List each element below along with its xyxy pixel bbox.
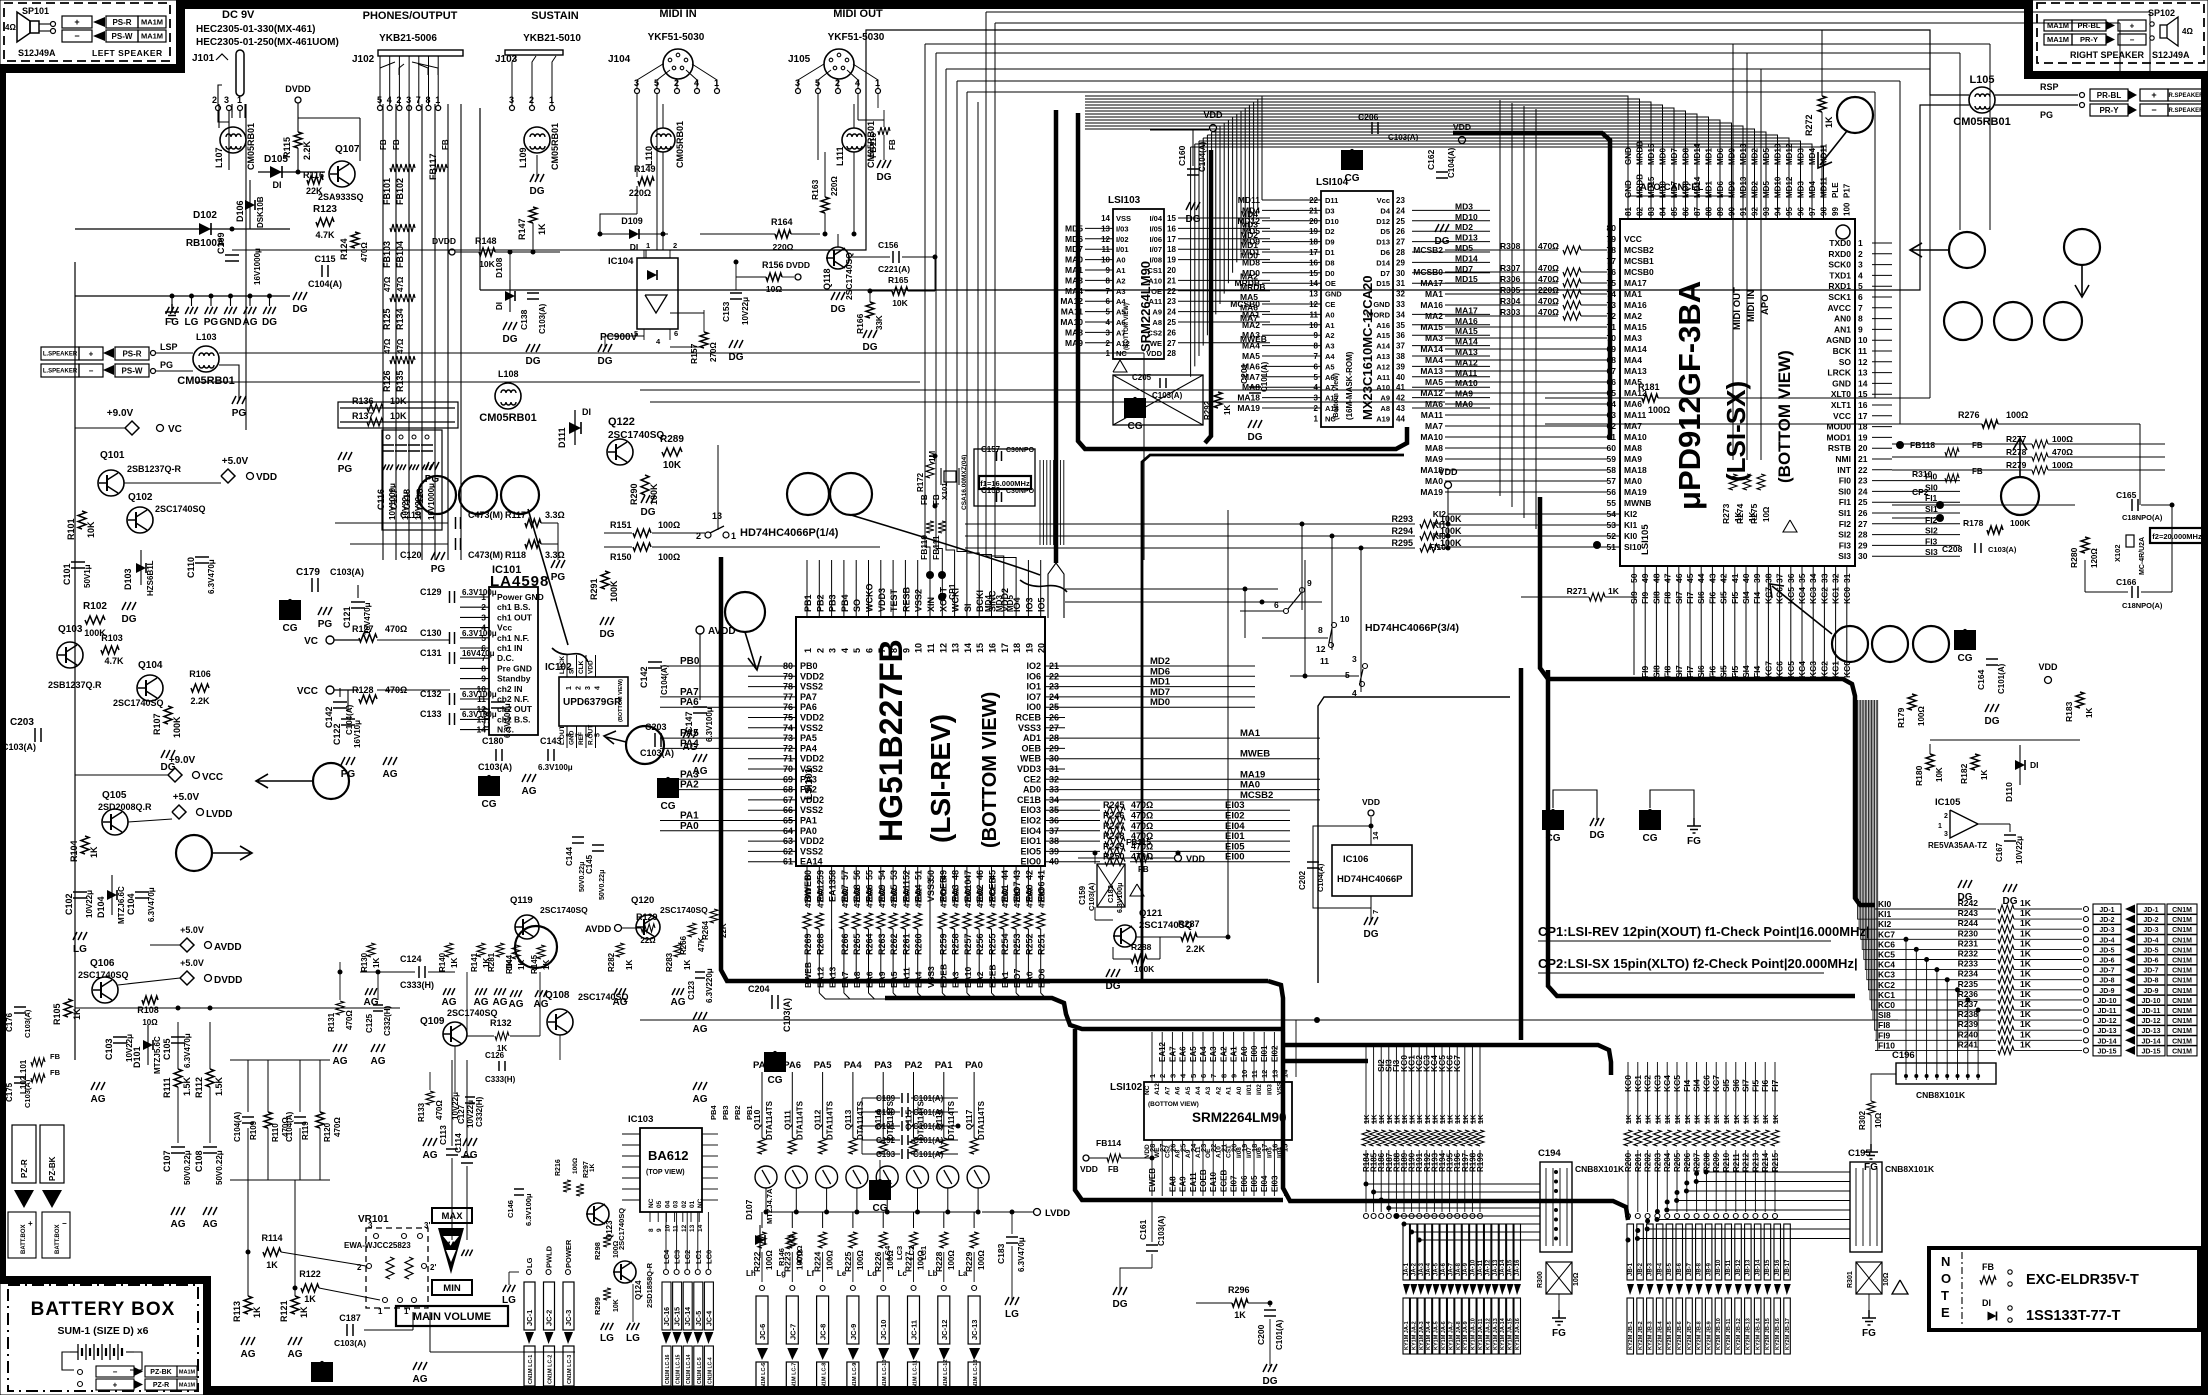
svg-text:470Ω: 470Ω — [939, 888, 948, 908]
bus thick around LSI103 — [1078, 113, 1407, 449]
svg-text:62: 62 — [1607, 421, 1617, 431]
battery cells symbol — [77, 1344, 79, 1360]
svg-text:JD-2: JD-2 — [2143, 917, 2158, 924]
svg-text:10Ω: 10Ω — [1573, 1272, 1580, 1286]
svg-text:IC105: IC105 — [1935, 797, 1961, 808]
svg-text:D12: D12 — [1376, 217, 1390, 226]
svg-text:R255: R255 — [988, 933, 998, 955]
svg-text:VDD2: VDD2 — [800, 713, 824, 723]
VC node — [326, 636, 334, 644]
svg-text:I/08: I/08 — [1149, 256, 1162, 265]
svg-text:R256: R256 — [975, 933, 985, 955]
svg-text:JD-8: JD-8 — [2143, 978, 2158, 985]
long verticals left of LSI105 — [1499, 100, 1501, 496]
svg-text:MA18: MA18 — [1420, 465, 1443, 475]
resistor R149 220 — [638, 177, 654, 185]
svg-text:MA11: MA11 — [1455, 368, 1477, 378]
svg-text:R261: R261 — [901, 933, 911, 955]
resistor fan R200-R215 1K — [1627, 1062, 1629, 1124]
svg-text:JB-7: JB-7 — [1687, 1262, 1693, 1276]
capacitor C122 16V10u — [341, 718, 355, 720]
svg-text:EI01: EI01 — [1260, 1045, 1269, 1062]
svg-text:KY2M JB-4: KY2M JB-4 — [1657, 1320, 1663, 1350]
svg-text:VSS2: VSS2 — [914, 589, 924, 612]
svg-text:DG: DG — [863, 342, 878, 353]
svg-text:C153: C153 — [721, 301, 731, 322]
svg-text:FG: FG — [1687, 836, 1701, 847]
svg-text:MA5: MA5 — [1242, 351, 1260, 361]
svg-text:R103: R103 — [101, 633, 123, 643]
svg-text:MD6: MD6 — [1065, 234, 1083, 244]
svg-text:SI3: SI3 — [1838, 551, 1851, 561]
svg-text:CP2: CP2 — [1912, 487, 1929, 497]
svg-text:R282: R282 — [607, 952, 616, 972]
transistor Q123 — [587, 1203, 609, 1225]
svg-text:11: 11 — [926, 643, 936, 653]
svg-text:SI2: SI2 — [1925, 526, 1938, 536]
svg-text:EA10: EA10 — [1209, 1171, 1218, 1192]
svg-text:MD7: MD7 — [1670, 148, 1679, 165]
capacitor C206 C103(A) — [1371, 122, 1373, 134]
svg-text:100Ω: 100Ω — [826, 1250, 835, 1270]
svg-text:5: 5 — [1858, 281, 1863, 291]
resistor R151 100 — [633, 529, 651, 537]
svg-text:26: 26 — [1167, 328, 1176, 337]
svg-text:470Ω: 470Ω — [1538, 296, 1559, 306]
svg-text:JA-13: JA-13 — [1493, 1259, 1499, 1276]
svg-text:Vcc: Vcc — [497, 623, 512, 633]
svg-text:A3: A3 — [1325, 342, 1335, 351]
svg-text:SUSTAIN: SUSTAIN — [531, 10, 579, 22]
svg-text:EA12: EA12 — [815, 966, 825, 988]
svg-text:470Ω: 470Ω — [1538, 241, 1559, 251]
LSI101 right MA wires — [1065, 737, 1320, 739]
svg-text:−: − — [89, 366, 94, 375]
ground PG — [551, 560, 565, 568]
svg-text:LEFT SPEAKER: LEFT SPEAKER — [92, 48, 163, 58]
svg-text:FB: FB — [888, 139, 897, 150]
svg-text:R213: R213 — [1751, 1152, 1760, 1172]
svg-text:14: 14 — [1101, 214, 1110, 223]
svg-text:R252: R252 — [1024, 933, 1034, 955]
svg-text:2: 2 — [576, 686, 583, 690]
svg-text:28: 28 — [1396, 248, 1405, 257]
svg-text:58: 58 — [1607, 465, 1617, 475]
svg-text:4: 4 — [1179, 1073, 1188, 1078]
svg-text:Q111: Q111 — [782, 1110, 792, 1130]
svg-text:PS-R: PS-R — [122, 349, 141, 358]
border frame bottom — [203, 1386, 2208, 1395]
svg-text:DG: DG — [1186, 214, 1201, 225]
svg-text:JB-8: JB-8 — [1697, 1262, 1703, 1276]
resistor R180 10K — [1926, 754, 1934, 770]
svg-text:C104(A): C104(A) — [1316, 863, 1325, 892]
transistor Q106 2SC1740SQ — [92, 977, 118, 1003]
svg-text:PS-W: PS-W — [122, 366, 143, 375]
svg-text:R172: R172 — [916, 472, 925, 492]
capacitor C187 C103A — [346, 1324, 348, 1336]
svg-text:MD4: MD4 — [1808, 148, 1817, 165]
resistors R130 R140 R141 1K — [367, 943, 375, 957]
svg-text:1: 1 — [1938, 823, 1942, 830]
svg-text:70: 70 — [1607, 333, 1617, 343]
inductor L109 — [524, 127, 550, 153]
resistor fan R184-R199 1K — [1365, 1047, 1367, 1124]
svg-text:100Ω: 100Ω — [2052, 460, 2073, 470]
wires IC105 region — [1930, 739, 2080, 741]
svg-text:24: 24 — [1858, 486, 1868, 496]
ground DG — [293, 292, 307, 300]
svg-text:48: 48 — [951, 870, 961, 880]
svg-text:1: 1 — [1148, 1074, 1157, 1078]
svg-text:52: 52 — [901, 870, 911, 880]
svg-text:6.3V470μ: 6.3V470μ — [1017, 1237, 1026, 1272]
svg-text:CS2: CS2 — [1164, 1145, 1171, 1158]
bus thick x1521 — [1519, 668, 1524, 1040]
svg-text:MOD0: MOD0 — [1826, 422, 1851, 432]
svg-text:2SA933SQ: 2SA933SQ — [318, 192, 364, 202]
svg-text:EA11: EA11 — [1189, 1172, 1198, 1192]
svg-text:EA7: EA7 — [1168, 1046, 1177, 1062]
svg-text:CP1:LSI-REV 12pin(XOUT) f1-Che: CP1:LSI-REV 12pin(XOUT) f1-Check Point|1… — [1538, 924, 1870, 939]
svg-text:R118: R118 — [505, 550, 526, 560]
svg-text:ch1 IN: ch1 IN — [497, 643, 523, 653]
svg-text:60: 60 — [1607, 443, 1617, 453]
svg-text:MD6: MD6 — [1716, 148, 1725, 165]
svg-text:I/07: I/07 — [1246, 1147, 1253, 1158]
svg-text:78: 78 — [1607, 245, 1617, 255]
svg-text:2SC1740SQ: 2SC1740SQ — [447, 1008, 498, 1018]
power AVDD diamond — [180, 938, 194, 952]
LSI105 top wire elbows — [1085, 96, 1628, 219]
svg-text:VSS2: VSS2 — [800, 682, 823, 692]
svg-text:C195: C195 — [1848, 1148, 1871, 1159]
svg-text:FB103: FB103 — [382, 241, 392, 268]
svg-text:FG: FG — [1862, 1328, 1876, 1339]
svg-text:R146: R146 — [777, 1248, 786, 1266]
transistor Q101 2SB1237Q-R — [98, 470, 124, 496]
capacitor C189-C193 stack — [901, 1093, 903, 1103]
svg-text:R104: R104 — [69, 840, 79, 862]
svg-text:A6: A6 — [1175, 1086, 1182, 1095]
svg-text:KC1: KC1 — [1878, 990, 1895, 1000]
svg-text:R230: R230 — [1958, 928, 1979, 938]
svg-text:C204: C204 — [748, 984, 770, 994]
svg-text:VCC: VCC — [297, 686, 318, 697]
red circle VC arrow — [313, 763, 349, 799]
svg-text:CLK: CLK — [578, 660, 585, 674]
resistors R264 R266 — [710, 909, 718, 923]
svg-text:C142: C142 — [324, 706, 334, 728]
svg-text:I/03: I/03 — [1266, 1084, 1273, 1095]
red circle APO area — [1837, 97, 1873, 133]
svg-text:DG: DG — [877, 172, 892, 183]
svg-text:NC: NC — [1144, 1085, 1151, 1095]
svg-text:JB-10: JB-10 — [1716, 1259, 1722, 1276]
svg-text:4: 4 — [840, 648, 850, 653]
svg-text:C190: C190 — [876, 1108, 896, 1117]
svg-text:CN1M LC-16: CN1M LC-16 — [665, 1354, 671, 1384]
svg-text:MD10: MD10 — [1774, 143, 1783, 165]
svg-text:TEST: TEST — [889, 588, 899, 612]
svg-text:MD14: MD14 — [1693, 143, 1702, 165]
svg-text:270Ω: 270Ω — [709, 342, 718, 362]
svg-text:41: 41 — [1037, 870, 1047, 880]
ground DG — [1186, 202, 1200, 210]
svg-text:56: 56 — [1607, 487, 1617, 497]
wires MIDI OUT — [817, 94, 819, 160]
svg-text:−: − — [2151, 105, 2156, 115]
svg-text:19: 19 — [1858, 432, 1868, 442]
svg-text:MD5: MD5 — [1762, 148, 1771, 165]
svg-text:AG: AG — [474, 997, 489, 1008]
svg-text:+5.0V: +5.0V — [180, 958, 204, 968]
svg-text:10K: 10K — [892, 298, 908, 308]
svg-text:470Ω: 470Ω — [976, 888, 985, 908]
svg-text:PA3: PA3 — [800, 774, 817, 784]
resistor R128 470 — [359, 695, 377, 703]
svg-text:IC103: IC103 — [628, 1114, 653, 1125]
svg-text:L107: L107 — [214, 147, 224, 168]
svg-text:C101(A): C101(A) — [913, 1136, 944, 1145]
svg-text:AN1: AN1 — [1834, 324, 1851, 334]
svg-text:16: 16 — [988, 643, 998, 653]
svg-text:DTA114TS: DTA114TS — [856, 1100, 865, 1140]
svg-text:2: 2 — [673, 241, 677, 250]
svg-text:VDD2: VDD2 — [800, 836, 824, 846]
svg-text:R292: R292 — [1203, 400, 1212, 420]
svg-text:R258: R258 — [951, 933, 961, 955]
svg-text:R178: R178 — [1963, 518, 1984, 528]
wires audio section — [339, 962, 341, 1000]
svg-text:DI: DI — [273, 180, 282, 190]
svg-text:LC2: LC2 — [907, 1246, 916, 1260]
red circle cluster right row — [1944, 302, 1982, 340]
svg-text:C113: C113 — [438, 1125, 448, 1145]
svg-text:470Ω: 470Ω — [795, 1245, 804, 1264]
svg-text:KC0: KC0 — [1623, 1075, 1633, 1092]
svg-text:LVDD: LVDD — [206, 809, 232, 820]
svg-text:JA-10: JA-10 — [1471, 1259, 1477, 1276]
connector boxes JC-1..JC-3 — [524, 1282, 535, 1330]
svg-text:7: 7 — [877, 648, 887, 653]
svg-text:R164: R164 — [771, 217, 793, 227]
svg-text:C205: C205 — [1132, 373, 1152, 382]
crystal X102 — [2126, 535, 2134, 547]
border frame right — [2201, 71, 2208, 1395]
ground DG under IC104 — [598, 344, 612, 352]
svg-text:1K: 1K — [1653, 1114, 1662, 1124]
border frame right-notch horizontal — [2024, 71, 2208, 79]
svg-text:2SD2008Q.R: 2SD2008Q.R — [98, 802, 152, 812]
svg-text:MCSB0: MCSB0 — [1624, 267, 1654, 277]
ground PG — [318, 607, 332, 615]
resistor R107 100K — [164, 706, 172, 724]
svg-text:2: 2 — [1158, 1074, 1167, 1078]
capacitor C165 C18NPO — [2131, 499, 2133, 511]
svg-text:DVDD: DVDD — [786, 260, 810, 270]
svg-text:CN1M: CN1M — [2172, 958, 2192, 965]
svg-text:VSS3: VSS3 — [926, 879, 936, 902]
svg-text:D101: D101 — [132, 1046, 142, 1068]
connector C195 CNB8X101K — [1850, 1162, 1882, 1252]
svg-text:EA6: EA6 — [1179, 1046, 1188, 1062]
svg-text:I/05: I/05 — [1149, 224, 1162, 233]
svg-text:R276: R276 — [1958, 410, 1980, 420]
svg-text:PA1: PA1 — [935, 1060, 953, 1071]
svg-text:KY2M JB-2: KY2M JB-2 — [1638, 1321, 1644, 1350]
resistor R131 470 — [336, 1001, 344, 1015]
svg-text:IO7: IO7 — [1026, 692, 1041, 702]
svg-text:SCK0: SCK0 — [1828, 260, 1851, 270]
svg-text:PB4: PB4 — [709, 1105, 718, 1120]
svg-text:O: O — [1941, 1271, 1951, 1286]
svg-text:CN1M: CN1M — [2172, 1028, 2192, 1035]
svg-text:MA19: MA19 — [1420, 487, 1443, 497]
svg-text:R294: R294 — [1391, 526, 1413, 536]
resistors R277 R278 R279 — [2032, 440, 2048, 448]
svg-text:I/04: I/04 — [1149, 214, 1162, 223]
svg-text:FB115: FB115 — [1126, 837, 1151, 847]
svg-text:100K: 100K — [2010, 518, 2031, 528]
svg-text:12: 12 — [1316, 644, 1326, 654]
svg-text:DTA114TS: DTA114TS — [826, 1100, 835, 1140]
svg-text:KC6: KC6 — [1701, 1075, 1711, 1092]
svg-text:6: 6 — [1858, 292, 1863, 302]
ground DG — [161, 750, 175, 758]
svg-text:KY1M JA-14: KY1M JA-14 — [1500, 1317, 1506, 1350]
svg-text:EA12: EA12 — [1158, 1041, 1167, 1062]
speaker SP101 symbol — [17, 12, 30, 42]
svg-text:33K: 33K — [875, 315, 884, 330]
svg-text:470Ω: 470Ω — [333, 1117, 342, 1137]
svg-text:1: 1 — [1314, 414, 1319, 423]
svg-text:C208: C208 — [1942, 544, 1963, 554]
svg-text:A2: A2 — [1116, 276, 1126, 285]
svg-text:470Ω: 470Ω — [2052, 447, 2073, 457]
resistor R111 1.5K — [174, 1069, 182, 1087]
svg-text:CM05RB01: CM05RB01 — [479, 412, 536, 424]
svg-text:KI0: KI0 — [1433, 531, 1447, 541]
op-amp IC101 LA4598 — [489, 587, 538, 735]
svg-text:A8: A8 — [1152, 318, 1162, 327]
svg-text:100Ω: 100Ω — [658, 552, 680, 562]
svg-text:EOEB: EOEB — [1199, 1169, 1208, 1192]
svg-text:37: 37 — [1396, 342, 1405, 351]
svg-text:OE: OE — [1325, 279, 1336, 288]
wire bundle LSI104 to LSI101 right — [1065, 588, 1278, 590]
connector array KY2M JB-1..JB-17 — [1627, 1224, 1634, 1280]
svg-text:KC7: KC7 — [1878, 929, 1895, 939]
svg-text:C187: C187 — [339, 1313, 361, 1323]
svg-text:FI2: FI2 — [1839, 519, 1852, 529]
svg-text:D13: D13 — [1376, 238, 1390, 247]
svg-text:JA-11: JA-11 — [1478, 1259, 1484, 1276]
border frame top — [176, 0, 2032, 9]
svg-text:R295: R295 — [1391, 538, 1413, 548]
svg-text:DTA114TS: DTA114TS — [765, 1100, 774, 1140]
svg-text:8: 8 — [648, 1228, 655, 1232]
wire C142 to IC102 — [339, 688, 341, 697]
svg-text:47: 47 — [963, 870, 973, 880]
resistor array R222-R229 100 — [761, 1212, 763, 1228]
vertical wires KC rows to C196 — [1904, 937, 1909, 942]
svg-text:A1: A1 — [1226, 1086, 1233, 1095]
svg-text:EA1: EA1 — [1230, 1046, 1239, 1062]
inductor L108 — [495, 383, 521, 409]
svg-text:−: − — [113, 1367, 118, 1376]
svg-text:DG: DG — [1106, 981, 1121, 992]
svg-text:FB: FB — [50, 1052, 61, 1061]
svg-text:C104(A): C104(A) — [345, 704, 354, 735]
svg-text:MA16: MA16 — [1420, 300, 1443, 310]
svg-text:7: 7 — [1371, 910, 1380, 914]
svg-text:C101(A): C101(A) — [913, 1150, 944, 1159]
svg-text:JD-5: JD-5 — [2143, 947, 2158, 954]
svg-text:23: 23 — [1167, 297, 1176, 306]
svg-text:R300: R300 — [1537, 1271, 1544, 1288]
svg-text:VDD: VDD — [2038, 662, 2058, 672]
svg-text:1K: 1K — [2020, 908, 2032, 918]
svg-text:A6: A6 — [1116, 318, 1126, 327]
svg-text:1K: 1K — [1980, 770, 1989, 780]
resistor R291 100K — [601, 571, 609, 589]
MAIN VOLUME label — [396, 1306, 508, 1326]
svg-text:3: 3 — [1352, 654, 1357, 664]
svg-text:R205: R205 — [1673, 1152, 1682, 1172]
svg-text:C18NPO(A): C18NPO(A) — [2122, 513, 2163, 522]
svg-text:LC4: LC4 — [883, 1245, 892, 1260]
svg-text:R136: R136 — [352, 396, 374, 406]
svg-text:MWEB: MWEB — [1240, 749, 1270, 760]
inductor L110 — [651, 128, 675, 152]
svg-text:47K: 47K — [697, 937, 706, 952]
svg-text:WCKO: WCKO — [865, 584, 875, 613]
svg-text:Standby: Standby — [497, 674, 531, 684]
svg-text:3.3Ω: 3.3Ω — [545, 510, 565, 520]
svg-text:R303: R303 — [1500, 307, 1521, 317]
svg-text:R259: R259 — [938, 933, 948, 955]
svg-text:PG: PG — [232, 408, 247, 419]
svg-text:J101: J101 — [192, 53, 215, 64]
svg-text:CN1M: CN1M — [2172, 927, 2192, 934]
svg-text:A12: A12 — [1116, 339, 1130, 348]
power VDD right — [1459, 137, 1466, 144]
svg-text:CNB8X101K: CNB8X101K — [1916, 1090, 1966, 1100]
svg-text:MA4: MA4 — [1065, 286, 1083, 296]
svg-text:61: 61 — [1607, 432, 1617, 442]
svg-text:IC106: IC106 — [1343, 854, 1368, 865]
svg-text:DTA114TS: DTA114TS — [977, 1100, 986, 1140]
svg-text:AG: AG — [288, 1349, 303, 1360]
svg-text:MCSB2: MCSB2 — [1413, 245, 1443, 255]
svg-text:FB: FB — [379, 139, 388, 150]
svg-text:6.3V100μ: 6.3V100μ — [462, 588, 497, 597]
svg-text:(TOP VIEW): (TOP VIEW) — [646, 1169, 685, 1176]
svg-text:10K: 10K — [86, 521, 96, 538]
svg-text:C133: C133 — [420, 709, 442, 719]
svg-text:100Ω: 100Ω — [947, 1250, 956, 1270]
svg-text:1K: 1K — [2020, 999, 2032, 1009]
svg-text:A0: A0 — [1325, 310, 1335, 319]
svg-text:R287: R287 — [1178, 919, 1200, 929]
svg-text:Q103: Q103 — [58, 624, 83, 635]
svg-text:R215: R215 — [1771, 1152, 1780, 1172]
wire LSI102 right to fan — [1295, 1020, 1297, 1077]
ground CG FG pair B — [1639, 810, 1661, 830]
svg-text:KY2M JB-12: KY2M JB-12 — [1736, 1318, 1742, 1350]
svg-text:17: 17 — [1000, 643, 1010, 653]
